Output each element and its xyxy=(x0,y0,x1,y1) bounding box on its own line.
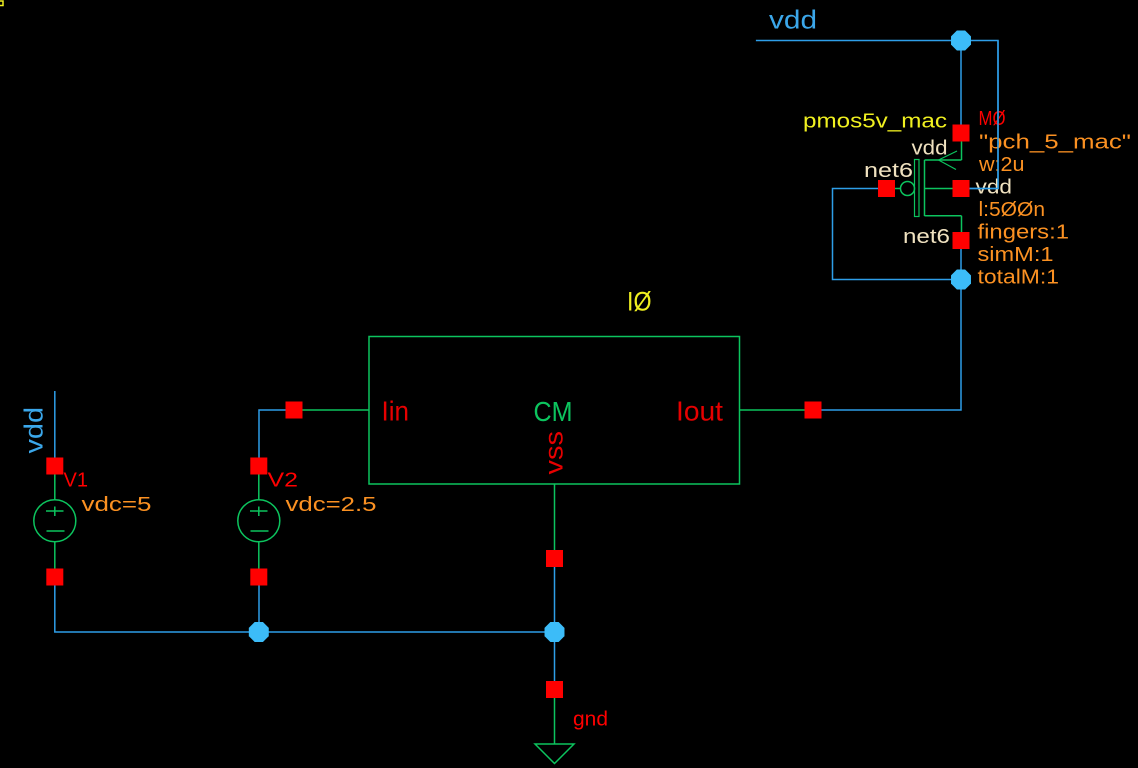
wire vdd top xyxy=(756,41,998,189)
svg-text:w:2u: w:2u xyxy=(978,154,1025,176)
junction dot net6 xyxy=(951,270,971,290)
junction dot bus V2 xyxy=(249,622,269,642)
svg-text:Iout: Iout xyxy=(676,396,723,427)
pin square gnd xyxy=(546,681,563,698)
gate bar xyxy=(915,160,920,217)
svg-text:net6: net6 xyxy=(903,226,950,248)
svg-text:MØ: MØ xyxy=(979,108,1006,130)
drain leg xyxy=(925,216,962,232)
wire CM to gnd xyxy=(554,567,556,681)
svg-text:V1: V1 xyxy=(64,470,89,492)
svg-text:vdc=2.5: vdc=2.5 xyxy=(286,494,377,516)
origin marker xyxy=(0,1,3,6)
svg-text:vdc=5: vdc=5 xyxy=(82,494,152,516)
bulk leg xyxy=(925,188,953,190)
pin square CM xyxy=(546,550,563,567)
svg-text:totalM:1: totalM:1 xyxy=(978,267,1060,289)
vsource V1 symbol xyxy=(34,475,76,569)
svg-text:Iin: Iin xyxy=(382,396,410,427)
Iin stub xyxy=(303,409,370,411)
svg-text:vdd: vdd xyxy=(976,177,1013,199)
wire vdd to M0 source xyxy=(960,41,962,125)
svg-text:net6: net6 xyxy=(864,160,913,182)
op block I0 symbol box xyxy=(369,337,740,485)
pin square M0 source xyxy=(953,125,970,142)
junction dot bus CM xyxy=(545,622,565,642)
svg-text:vdd: vdd xyxy=(769,5,817,35)
junction dot vdd top xyxy=(951,31,971,51)
svg-text:simM:1: simM:1 xyxy=(978,244,1054,266)
svg-text:vss: vss xyxy=(539,431,569,475)
wire V2 bottom to bus xyxy=(258,586,260,633)
wire vdd left xyxy=(54,391,56,458)
pmos M0 symbol xyxy=(895,142,962,233)
svg-text:pmos5v_mac: pmos5v_mac xyxy=(803,111,947,133)
svg-text:l:5ØØn: l:5ØØn xyxy=(979,199,1046,221)
wire vdd right overlay xyxy=(970,41,999,189)
wire V2 top to Iin xyxy=(259,410,286,458)
pin square V1 plus xyxy=(46,458,63,475)
pin square Iout xyxy=(805,402,822,419)
pin square M0 bulk xyxy=(953,180,970,197)
pin square V2 minus xyxy=(250,569,267,586)
vsource V2 symbol xyxy=(238,475,280,569)
svg-text:"pch_5_mac": "pch_5_mac" xyxy=(979,132,1131,154)
CM stub xyxy=(554,484,556,550)
pin square M0 gate xyxy=(878,180,895,197)
pin square V1 minus xyxy=(46,569,63,586)
svg-text:vdd: vdd xyxy=(19,407,49,454)
channel xyxy=(924,160,926,216)
source arrow xyxy=(939,151,958,170)
svg-text:IØ: IØ xyxy=(627,287,652,317)
pin square M0 drain xyxy=(953,232,970,249)
svg-text:fingers:1: fingers:1 xyxy=(978,222,1070,244)
pin square V2 plus xyxy=(250,458,267,475)
svg-text:V2: V2 xyxy=(268,470,299,492)
svg-text:vdd: vdd xyxy=(912,138,948,160)
svg-text:gnd: gnd xyxy=(573,709,608,731)
pin square Iin xyxy=(286,402,303,419)
wire drain net6 to Iout xyxy=(822,249,962,410)
Iout stub xyxy=(740,409,806,411)
wire V1 bottom to gnd bus xyxy=(55,586,554,633)
wire gate net6 xyxy=(833,189,952,280)
gate bubble xyxy=(901,182,915,196)
ground symbol xyxy=(535,698,574,764)
gate stub xyxy=(895,188,901,190)
svg-text:CM: CM xyxy=(534,396,573,427)
source leg xyxy=(925,142,962,161)
